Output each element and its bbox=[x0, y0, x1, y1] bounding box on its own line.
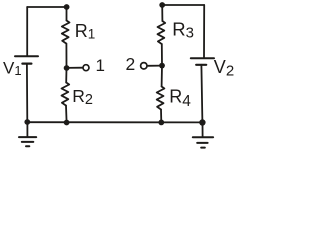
wire node 2 stub bbox=[148, 65, 162, 67]
battery V1 long plate bbox=[15, 55, 38, 57]
wire R3 top lead bbox=[161, 5, 163, 21]
svg-text:1: 1 bbox=[96, 56, 105, 75]
battery V2 long plate bbox=[191, 57, 214, 59]
wire R3 to node 2 bbox=[161, 44, 163, 66]
wire node 1 to R2 bbox=[65, 68, 67, 83]
wire R1 to node 1 bbox=[65, 44, 67, 69]
wire V2 bottom lead bbox=[201, 65, 202, 123]
battery V1 short plate bbox=[22, 62, 31, 64]
wire node 2 to R4 bbox=[161, 66, 163, 87]
node junction dot bottom-left bbox=[24, 119, 30, 125]
node B junction dot (top of R3) bbox=[159, 2, 165, 8]
ground (right) bars bbox=[193, 136, 213, 138]
node A junction dot (top of R1) bbox=[64, 4, 70, 10]
wire V2 top lead bbox=[203, 5, 205, 58]
node junction dot bottom-right bbox=[199, 119, 205, 125]
node junction dot bottom of R2 bbox=[64, 120, 70, 126]
resistor R3 bbox=[158, 21, 166, 44]
wire top-right rail bbox=[162, 4, 204, 6]
wire V1 bottom lead bbox=[26, 64, 28, 122]
battery V2 short plate bbox=[196, 64, 206, 66]
node 1 junction dot bbox=[64, 65, 70, 71]
ground (left) bars bbox=[19, 136, 36, 138]
ground (left) lead bbox=[26, 122, 28, 137]
node 2 open terminal circle bbox=[141, 63, 147, 69]
resistor R2 bbox=[62, 83, 70, 106]
node junction dot bottom of R4 bbox=[158, 120, 164, 126]
node 1 open terminal circle bbox=[83, 65, 89, 71]
wire bottom rail bbox=[27, 121, 202, 123]
wire top-left rail bbox=[27, 6, 66, 8]
node 2 junction dot bbox=[159, 63, 165, 69]
wire R1 top lead bbox=[66, 7, 68, 21]
resistor R1 bbox=[62, 21, 70, 44]
ground (right) lead bbox=[202, 123, 204, 138]
wire R2 bottom lead bbox=[65, 106, 68, 123]
svg-text:2: 2 bbox=[126, 54, 136, 74]
wire node 1 stub bbox=[67, 67, 83, 69]
resistor R4 bbox=[157, 87, 165, 110]
wire V1 top lead bbox=[26, 7, 28, 56]
wire R4 bottom lead bbox=[160, 110, 162, 123]
